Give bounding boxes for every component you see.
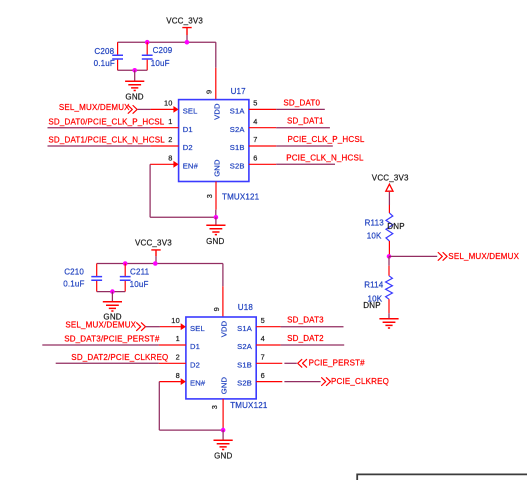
svg-text:10K: 10K xyxy=(367,232,382,241)
svg-text:SD_DAT2/PCIE_CLKREQ: SD_DAT2/PCIE_CLKREQ xyxy=(71,353,168,362)
op-amp-style mux IC U17 body xyxy=(179,100,249,182)
svg-text:SD_DAT0/PCIE_CLK_P_HCSL: SD_DAT0/PCIE_CLK_P_HCSL xyxy=(48,117,164,126)
svg-text:DNP: DNP xyxy=(363,301,380,310)
svg-text:2: 2 xyxy=(168,135,172,144)
svg-text:10uF: 10uF xyxy=(151,59,170,68)
capacitor C209 xyxy=(142,42,173,70)
svg-text:3: 3 xyxy=(205,194,214,198)
svg-text:D2: D2 xyxy=(190,360,200,369)
ground GND below C210/C211 xyxy=(103,292,122,322)
node junction lower VCC stem tee xyxy=(153,261,158,266)
svg-text:VDD: VDD xyxy=(213,103,222,120)
power VCC_3V3 lower section xyxy=(135,239,172,264)
node junction caps GND tee xyxy=(132,68,137,73)
port SEL_MUX/DEMUX into U18 SEL xyxy=(65,321,185,331)
svg-text:DNP: DNP xyxy=(387,222,404,231)
svg-text:10: 10 xyxy=(164,99,173,108)
port SEL_MUX/DEMUX into U17 SEL xyxy=(59,103,179,113)
resistor R113 10K DNP xyxy=(365,205,405,256)
svg-text:10uF: 10uF xyxy=(130,280,149,289)
wire net SD_DAT2 from U18 xyxy=(256,334,344,345)
ground GND below U17 xyxy=(206,217,225,246)
svg-text:D1: D1 xyxy=(190,342,200,351)
wire net SD_DAT1 from U17 xyxy=(249,117,330,128)
svg-text:1: 1 xyxy=(176,334,180,343)
U17 pin names SEL D1 D2 EN# VDD GND S1A S2A S1B S2B xyxy=(183,103,246,177)
svg-text:U17: U17 xyxy=(231,87,247,96)
power VCC_3V3 top section xyxy=(166,16,203,42)
svg-text:5: 5 xyxy=(253,99,257,108)
svg-text:C210: C210 xyxy=(64,267,84,276)
power VCC_3V3 right (triangle style) xyxy=(372,174,409,206)
svg-text:TMUX121: TMUX121 xyxy=(230,401,268,410)
svg-text:GND: GND xyxy=(206,237,224,246)
svg-text:8: 8 xyxy=(176,371,180,380)
svg-text:SD_DAT3: SD_DAT3 xyxy=(287,316,324,325)
svg-text:PCIE_CLK_N_HCSL: PCIE_CLK_N_HCSL xyxy=(286,153,364,162)
svg-text:SD_DAT1/PCIE_CLK_N_HCSL: SD_DAT1/PCIE_CLK_N_HCSL xyxy=(48,136,165,145)
node junction VCC stem tee xyxy=(185,40,190,45)
U18 designator label xyxy=(238,303,254,312)
svg-text:S2A: S2A xyxy=(230,125,246,134)
U17 designator label xyxy=(231,87,247,96)
svg-text:GND: GND xyxy=(220,376,229,394)
svg-text:S1A: S1A xyxy=(230,107,246,116)
wire top rail U18 section xyxy=(97,264,223,318)
ground GND below C208/C209 xyxy=(125,70,144,101)
svg-text:EN#: EN# xyxy=(183,161,199,170)
node junction R113/R114 SEL_MUX/DEMUX xyxy=(387,254,392,259)
svg-text:GND: GND xyxy=(214,452,232,461)
svg-text:SEL_MUX/DEMUX: SEL_MUX/DEMUX xyxy=(59,103,130,112)
svg-text:2: 2 xyxy=(176,353,180,362)
svg-text:PCIE_CLKREQ: PCIE_CLKREQ xyxy=(331,377,389,386)
svg-text:VCC_3V3: VCC_3V3 xyxy=(135,239,172,248)
svg-text:1: 1 xyxy=(168,117,172,126)
svg-text:SD_DAT1: SD_DAT1 xyxy=(287,117,324,126)
wire net SD_DAT0 from U17 xyxy=(249,98,325,109)
U17 pin numbers 10 1 2 8 9 3 5 4 7 6 xyxy=(164,90,258,198)
svg-text:GND: GND xyxy=(213,159,222,177)
svg-text:S2A: S2A xyxy=(237,342,253,351)
wire net SD_DAT3 from U18 xyxy=(256,316,343,327)
svg-text:SEL_MUX/DEMUX: SEL_MUX/DEMUX xyxy=(448,252,519,261)
svg-text:6: 6 xyxy=(261,371,265,380)
U18 part type label TMUX121 xyxy=(230,401,268,410)
svg-text:VCC_3V3: VCC_3V3 xyxy=(166,16,203,25)
svg-text:SEL_MUX/DEMUX: SEL_MUX/DEMUX xyxy=(65,321,136,330)
op-amp-style mux IC U18 body xyxy=(186,317,256,399)
svg-text:8: 8 xyxy=(168,154,172,163)
svg-text:GND: GND xyxy=(125,93,143,102)
svg-text:S2B: S2B xyxy=(237,379,252,388)
wire top rail U17 section xyxy=(118,42,216,99)
node junction C209 tee xyxy=(145,40,150,45)
capacitor C210 xyxy=(63,264,102,292)
svg-text:S2B: S2B xyxy=(230,161,245,170)
wire net SD_DAT0/PCIE_CLK_P_HCSL to U17 D1 xyxy=(48,117,179,127)
wire net SD_DAT1/PCIE_CLK_N_HCSL to U17 D2 xyxy=(48,136,179,146)
svg-text:0.1uF: 0.1uF xyxy=(63,279,84,288)
svg-text:SEL: SEL xyxy=(183,107,198,116)
svg-text:PCIE_CLK_P_HCSL: PCIE_CLK_P_HCSL xyxy=(288,135,365,144)
wire bottom rail of C208/C209 xyxy=(118,69,148,71)
node junction lower caps GND tee xyxy=(110,289,115,294)
U18 pin numbers 10 1 2 8 9 3 5 4 7 6 xyxy=(171,307,265,409)
svg-text:7: 7 xyxy=(253,135,257,144)
port SEL_MUX/DEMUX right output xyxy=(389,252,520,261)
wire net SD_DAT2/PCIE_CLKREQ to U18 D2 xyxy=(56,353,186,363)
svg-text:10: 10 xyxy=(171,316,180,325)
svg-text:SD_DAT0: SD_DAT0 xyxy=(283,98,320,107)
svg-text:VDD: VDD xyxy=(220,320,229,337)
U17 pin 3 GND stub wire xyxy=(215,182,217,210)
svg-text:4: 4 xyxy=(261,334,265,343)
svg-text:C211: C211 xyxy=(130,267,150,276)
wire net PCIE_CLK_P_HCSL from U17 xyxy=(249,135,365,146)
svg-text:EN#: EN# xyxy=(190,379,206,388)
svg-text:D2: D2 xyxy=(183,143,193,152)
svg-text:S1B: S1B xyxy=(237,360,252,369)
svg-text:SEL: SEL xyxy=(190,324,205,333)
svg-text:U18: U18 xyxy=(238,303,254,312)
ground below R114 xyxy=(379,319,398,328)
wire EN# loop U17 (pin 8 to GND net) xyxy=(150,161,216,217)
svg-text:D1: D1 xyxy=(183,125,193,134)
wire net PCIE_CLK_N_HCSL from U17 xyxy=(249,153,364,164)
node junction U18 GND xyxy=(221,428,226,433)
node junction U17 GND xyxy=(214,215,219,220)
svg-text:9: 9 xyxy=(212,307,221,311)
port PCIE_CLKREQ from U18 S2B xyxy=(256,377,389,386)
port PCIE_PERST# from U18 S1B xyxy=(256,359,365,368)
wire net SD_DAT3/PCIE_PERST# to U18 D1 xyxy=(42,335,186,346)
svg-text:6: 6 xyxy=(253,154,257,163)
wire EN# loop U18 (pin 8 to GND net) xyxy=(159,378,223,430)
U18 pin 3 GND stub wire xyxy=(222,399,224,427)
svg-text:7: 7 xyxy=(261,353,265,362)
node junction C211 tee xyxy=(123,261,128,266)
U17 part type label TMUX121 xyxy=(222,192,260,201)
svg-text:SD_DAT2: SD_DAT2 xyxy=(287,334,324,343)
svg-text:C208: C208 xyxy=(94,47,114,56)
svg-text:S1A: S1A xyxy=(237,324,253,333)
svg-text:SD_DAT3/PCIE_PERST#: SD_DAT3/PCIE_PERST# xyxy=(64,335,160,344)
wire bottom rail of C210/C211 xyxy=(97,291,126,293)
svg-text:S1B: S1B xyxy=(230,143,245,152)
svg-text:R113: R113 xyxy=(365,219,385,228)
svg-text:0.1uF: 0.1uF xyxy=(94,59,115,68)
svg-text:PCIE_PERST#: PCIE_PERST# xyxy=(309,359,366,368)
svg-text:VCC_3V3: VCC_3V3 xyxy=(372,174,409,183)
svg-text:4: 4 xyxy=(253,117,257,126)
svg-text:C209: C209 xyxy=(153,46,173,55)
ground GND below U18 xyxy=(214,430,233,461)
capacitor C211 xyxy=(120,264,150,292)
svg-text:R114: R114 xyxy=(364,280,384,289)
svg-text:5: 5 xyxy=(261,316,265,325)
U18 pin names SEL D1 D2 EN# VDD GND S1A S2A S1B S2B xyxy=(190,320,253,394)
svg-text:TMUX121: TMUX121 xyxy=(222,192,260,201)
svg-text:9: 9 xyxy=(205,90,214,94)
resistor R114 10K DNP xyxy=(363,256,392,318)
capacitor C208 xyxy=(94,42,123,70)
svg-text:3: 3 xyxy=(210,405,219,409)
title block border corner xyxy=(357,474,527,480)
